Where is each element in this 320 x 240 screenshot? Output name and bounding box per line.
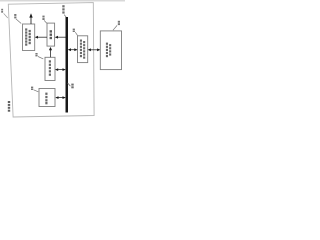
- bus label (top): [62, 5, 64, 13]
- wire double arrow C to bus: [56, 69, 65, 71]
- box A display unit: [23, 24, 35, 51]
- figure caption text (left top, rotated): [1, 9, 3, 13]
- leader tick for box B label: [44, 20, 47, 23]
- box A text column 1: [25, 28, 27, 45]
- box C memory: [45, 57, 55, 80]
- wire double arrow E to F (crosses frame): [89, 49, 100, 51]
- box F text column 1: [106, 43, 108, 58]
- wire double arrow bus to E: [69, 49, 77, 51]
- arrow up from box A: [30, 16, 32, 24]
- box D text column: [45, 93, 47, 105]
- leader tick for box E label: [75, 32, 77, 35]
- wire arrow C up to B: [50, 49, 52, 57]
- box C text column: [49, 60, 51, 76]
- page number text column (left bottom, rotated): [8, 101, 10, 112]
- node label 23 (box C): [35, 53, 37, 56]
- box B CPU: [47, 23, 55, 46]
- box E text column 2: [83, 41, 85, 59]
- box A text column 2: [29, 30, 31, 44]
- wire arrow bus to B: [56, 36, 66, 38]
- box E text column 1: [80, 40, 82, 58]
- box E storage interface: [78, 36, 88, 63]
- wire arrow B to A: [36, 36, 47, 38]
- box F text column 2: [109, 44, 111, 56]
- wire double arrow D to bus: [56, 97, 65, 99]
- leader tick for frame label: [4, 13, 8, 18]
- leader tick for box F label: [113, 25, 117, 30]
- node label 25 (box D): [31, 87, 33, 90]
- bus label (bottom right of bus): [68, 83, 71, 86]
- box D communication unit: [39, 89, 55, 107]
- leader tick for box A label: [16, 19, 21, 24]
- node label 24 (box E): [73, 29, 75, 32]
- leader tick for box C label: [38, 57, 43, 59]
- bus (thick vertical line): [66, 17, 69, 113]
- box F external storage device: [100, 31, 121, 70]
- leader tick for bus label: [64, 15, 66, 18]
- box B text CPU: [50, 30, 52, 39]
- frame border of apparatus (skewed scan): [8, 3, 94, 117]
- leader tick for box D label: [34, 90, 39, 92]
- node label 40 (box F): [118, 21, 120, 25]
- page top edge line: [0, 0, 125, 2]
- node label 22 (box B): [42, 16, 44, 20]
- node label 21 (box A): [14, 14, 16, 18]
